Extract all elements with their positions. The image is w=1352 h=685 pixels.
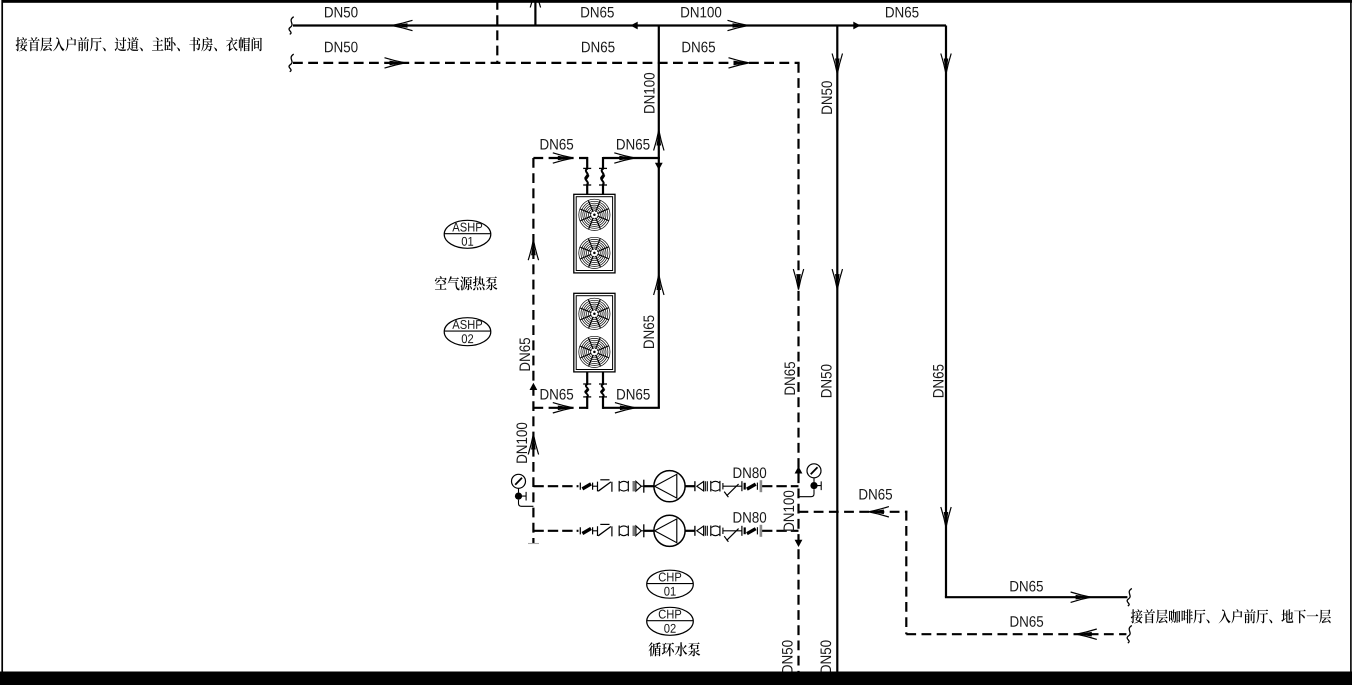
pressure gauge at pump row 1 suction (left): [512, 474, 534, 506]
wire ASHP-01 right stub upper: [602, 157, 604, 169]
flange tick ASHP-01 right top: [599, 167, 607, 169]
check valve pump CHP-02 line: [598, 524, 612, 536]
wire H4b supply branch from ASHP-02: [603, 407, 660, 409]
flow arrow V2 up upper: [654, 130, 664, 151]
wire V2 heat-pump supply collector DN100/DN65: [658, 26, 660, 408]
equipment tag ASHP-01 name: [452, 223, 482, 232]
label DN65 on H2 right: [682, 42, 715, 53]
pipe segment pump CHP-02 line a: [593, 530, 598, 532]
flow arrow H2 right: [385, 58, 406, 68]
pipe segment pump CHP-01 line a: [593, 485, 598, 487]
pipe nipple pump CHP-02 line out of pump: [685, 530, 696, 532]
label DN65 on H3a: [541, 139, 574, 150]
centrifugal pump pump CHP-01 line: [654, 471, 685, 502]
wire H1 supply header DN50-DN65-DN100-DN65: [293, 24, 946, 26]
butterfly valve pump CHP-02 line discharge: [742, 525, 761, 537]
wire pump row 1 discharge to V5 (dashed): [762, 485, 799, 487]
junction arrow H1 left of V2: [631, 22, 638, 30]
label DN65 on H5: [1010, 581, 1043, 592]
sheet border left line: [1, 0, 3, 672]
wire ASHP-01 left stub upper: [586, 157, 588, 169]
label DN100 on H1: [681, 7, 721, 18]
flow arrow H4b right: [615, 403, 636, 413]
label DN65 on H1: [581, 7, 614, 18]
wire ASHP-01 right stub lower: [602, 185, 604, 195]
equipment tag CHP-01 name: [659, 573, 681, 582]
label DN65 on H4a: [541, 389, 574, 400]
label DN50 on V3 lower: [820, 640, 831, 673]
flexible joint pump CHP-01 line suction: [619, 481, 628, 492]
flow arrow V2 up lower: [654, 275, 664, 296]
air source heat pump unit ASHP-02 (fan casing): [574, 293, 615, 372]
wire V1 supply riser to floor above: [534, 0, 536, 26]
flow arrow V6 up upper: [528, 240, 538, 261]
label DN100 on V6: [516, 423, 527, 463]
pipe break H5 right end: [1127, 588, 1132, 606]
flange tick ASHP-02 right top: [599, 383, 607, 385]
junction arrow V2 below H3b: [655, 163, 663, 170]
flow arrow H3a right: [553, 153, 574, 163]
air source heat pump unit ASHP-01 (fan casing): [574, 194, 615, 273]
pipe segment pump CHP-01 line c: [723, 485, 742, 487]
wire H3b supply branch from ASHP-01: [603, 157, 660, 159]
junction arrow V5 up above pump row 1: [795, 466, 803, 473]
label DN65 on H4b: [617, 389, 650, 400]
pipe break H7 right end: [1127, 625, 1132, 643]
wire V4 supply drop DN65 to cafe: [945, 26, 947, 598]
wire pump row 1 suction (dashed): [533, 485, 578, 487]
label DN50 on H1: [325, 7, 358, 18]
equipment tag ASHP-02 number: [462, 334, 473, 343]
flow arrow H5 right: [1071, 592, 1092, 602]
pipe nipple pump CHP-01 line into pump: [644, 485, 655, 487]
balancing valve pump CHP-01 line: [724, 484, 738, 497]
flexible joint pump CHP-01 line discharge: [711, 481, 723, 492]
pipe break H1 left end: [289, 17, 294, 35]
wire V3 supply drop DN50: [836, 26, 838, 672]
sheet border top bar: [3, 0, 1352, 3]
flange tick ASHP-02 left bottom: [583, 396, 591, 398]
flow arrow H1 left: [392, 20, 413, 30]
label DN65 on V2: [643, 315, 654, 348]
wire V7 return drop DN65 (dashed): [905, 511, 907, 634]
label DN65 on H2: [582, 42, 615, 53]
pipe nipple pump CHP-01 line out of pump: [685, 485, 696, 487]
wire H2 return header DN50-DN65 (dashed): [293, 62, 800, 64]
flow arrow V4 down upper: [941, 54, 951, 75]
equipment tag CHP-02: [647, 607, 694, 635]
check valve pump CHP-01 line discharge: [695, 481, 707, 491]
note: to first-floor entrance hall, corridor, master bedroom, study, cloakroom: [16, 37, 262, 51]
flow arrow H4a right: [553, 403, 574, 413]
note: to first-floor cafe, entrance hall, basement level: [1131, 609, 1331, 623]
butterfly valve pump CHP-01 line suction: [580, 483, 592, 490]
flow arrow V5 down: [793, 269, 803, 290]
flexible connection ASHP-01 right: [601, 169, 604, 185]
balancing valve pump CHP-02 line: [724, 529, 738, 542]
check valve pump CHP-01 line: [598, 480, 612, 492]
label DN65 on V6: [519, 338, 530, 371]
wire ASHP-02 right stub upper: [602, 372, 604, 385]
wire ASHP-02 left stub upper: [586, 372, 588, 385]
label DN100 on V5: [783, 491, 794, 531]
equipment tag CHP-02 name: [659, 610, 681, 619]
pipe nipple pump CHP-02 line into pump: [644, 530, 655, 532]
flow arrow V3 down middle: [832, 269, 842, 290]
reducer pump CHP-02 line suction: [634, 524, 644, 537]
centrifugal pump pump CHP-02 line: [654, 515, 685, 546]
label DN65 on H6: [859, 489, 892, 500]
flexible connection ASHP-01 left: [585, 169, 588, 185]
label DN65 on H1 right: [886, 7, 919, 18]
wire pump row 2 discharge to V5 (dashed): [762, 530, 799, 532]
label DN50 on V3 upper: [821, 81, 832, 114]
label DN50 on V3 middle: [821, 365, 832, 398]
label DN65 on H3b: [617, 139, 650, 150]
equipment tag CHP-01 number: [664, 587, 675, 596]
flow arrow H6 left: [868, 507, 889, 517]
flow arrow V3 down upper: [832, 54, 842, 75]
butterfly valve pump CHP-01 line discharge: [742, 480, 761, 492]
wire V5 return riser DN65/DN100/DN50 (dashed): [797, 63, 799, 672]
note: circulating water pump: [649, 642, 701, 656]
equipment tag ASHP-02: [444, 318, 491, 346]
cap at end of V6: [528, 543, 539, 545]
flange tick ASHP-02 left top: [583, 383, 591, 385]
junction arrow V6 up below H4a: [530, 383, 538, 390]
flow arrow V1 up: [530, 0, 540, 8]
label DN65 on H7: [1011, 616, 1044, 627]
wire ASHP-01 left stub lower: [586, 185, 588, 195]
flexible joint pump CHP-02 line discharge: [711, 526, 723, 537]
label DN65 on V4: [933, 365, 944, 398]
wire H4a return branch to ASHP-02 (dashed): [533, 407, 588, 409]
butterfly valve pump CHP-02 line suction: [580, 527, 592, 534]
wire H6 return branch DN65 (dashed): [799, 511, 908, 513]
label DN50 on V5 lower: [782, 640, 793, 673]
flow arrow H1 right: [728, 20, 749, 30]
pressure gauge at pump row 1 discharge (right): [799, 464, 822, 497]
label DN80 pump row 2: [734, 512, 767, 523]
flange tick ASHP-01 right bottom: [599, 184, 607, 186]
check valve pump CHP-02 line discharge: [695, 526, 707, 536]
flange tick ASHP-01 left top: [583, 167, 591, 169]
junction arrow V5 down below H6: [795, 540, 803, 547]
wire H3a return branch to ASHP-01 (dashed): [533, 157, 588, 159]
wire V0 return riser to floor above (dashed): [496, 0, 498, 63]
note: air source heat pump: [435, 276, 498, 290]
sheet border bottom bar: [0, 672, 1352, 685]
flow arrow H7 left: [1076, 629, 1097, 639]
equipment tag CHP-02 number: [664, 624, 675, 633]
wire H7 return run-out DN65 (dashed): [906, 633, 1126, 635]
wire ASHP-02 right stub lower: [602, 397, 604, 409]
label DN50 on H2: [325, 42, 358, 53]
flange tick ASHP-01 left bottom: [583, 184, 591, 186]
equipment tag ASHP-01 number: [462, 237, 473, 246]
flexible connection ASHP-02 right: [601, 384, 604, 397]
wire ASHP-02 left stub lower: [586, 397, 588, 409]
flange tick ASHP-02 right bottom: [599, 396, 607, 398]
junction arrow H1 right of V3: [853, 22, 860, 30]
flexible connection ASHP-02 left: [585, 384, 588, 397]
wire H5 supply run-out DN65 to cafe: [945, 596, 1128, 598]
flow arrow V6 up lower: [528, 434, 538, 455]
equipment tag ASHP-02 name: [452, 320, 482, 329]
flexible joint pump CHP-02 line suction: [619, 526, 628, 537]
pipe segment pump CHP-01 line b: [641, 485, 644, 487]
label DN65 on V5: [784, 362, 795, 395]
pipe break H2 left end: [289, 54, 294, 72]
equipment tag CHP-01: [647, 570, 694, 598]
reducer pump CHP-01 line suction: [634, 480, 644, 493]
wire pump row 2 suction (dashed): [533, 530, 578, 532]
equipment tag ASHP-01: [444, 220, 491, 248]
flow arrow H3b right: [614, 153, 635, 163]
sheet border right line: [1350, 0, 1352, 672]
label DN80 pump row 1: [734, 467, 767, 478]
flow arrow V4 down lower: [941, 507, 951, 528]
flow arrow H2 right 2: [729, 58, 750, 68]
pipe segment pump CHP-02 line c: [723, 530, 742, 532]
label DN100 on V2: [644, 73, 655, 113]
pipe segment pump CHP-02 line b: [641, 530, 644, 532]
wire V6 heat-pump return collector DN65/DN100 (dashed): [532, 158, 534, 543]
